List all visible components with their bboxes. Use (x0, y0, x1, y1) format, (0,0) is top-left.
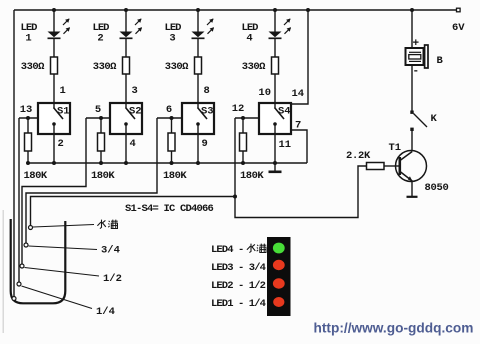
ground symbol (emitter) (407, 196, 418, 198)
node: junction dots on top rail (52, 8, 414, 12)
node: control junction S4 (241, 116, 245, 120)
leader: 1/4 (22, 286, 93, 309)
svg-text:13: 13 (20, 104, 33, 116)
svg-text:T1: T1 (389, 142, 402, 154)
probe: common electrode bottom (12, 297, 16, 301)
wire: probe wire stage1 (1/4 level) (18, 118, 20, 282)
wire: common electrode feed (left vertical from +6V into tank) (13, 10, 15, 297)
wire: R3 to S3 pin8 (197, 74, 199, 103)
svg-text:3/4: 3/4 (101, 245, 120, 257)
wire: R4 to S4 pin10 (274, 74, 276, 103)
wire: rail to LED1 (53, 10, 55, 32)
svg-text:1: 1 (60, 85, 66, 97)
svg-text:330Ω: 330Ω (242, 61, 266, 73)
wire: ground rail (28, 162, 307, 164)
wire: 2.2K to base (384, 165, 399, 167)
svg-text:5: 5 (95, 104, 101, 116)
svg-text:3: 3 (132, 85, 138, 97)
svg-text:2.2K: 2.2K (346, 150, 371, 162)
svg-text:B: B (437, 55, 444, 67)
leader: full level (33, 225, 94, 228)
wire: probe wire stage2 (1/2 level) (22, 118, 86, 264)
tank (container) (11, 219, 66, 303)
svg-text:LED3 - 3/4: LED3 - 3/4 (211, 262, 266, 274)
resistor 180K (stage3) (168, 118, 175, 165)
resistor R2 330Ω (123, 57, 130, 74)
probe: 3/4 level (24, 243, 28, 247)
wire: S3 pin6 control (157, 117, 182, 119)
svg-text:S1-S4= IC CD4066: S1-S4= IC CD4066 (125, 203, 214, 215)
svg-text:180K: 180K (91, 170, 115, 182)
resistor 180K (stage2) (98, 118, 105, 165)
analog switch S4 (259, 103, 291, 134)
wire: S4 pin7 to ground rail (291, 130, 307, 163)
node (196, 161, 200, 165)
label: 水滿 (tank) (97, 220, 117, 229)
LED D3 (192, 19, 214, 38)
wire: rail to LED3 (197, 10, 199, 32)
wire: S1 pin13 control (19, 117, 38, 119)
svg-text:11: 11 (279, 139, 292, 151)
wire: +6V top rail (14, 9, 457, 11)
node: control junction S3 (170, 116, 174, 120)
wire: S2 pin5 control (86, 117, 110, 119)
svg-text:4: 4 (246, 33, 252, 45)
wire: S1 pin2 to ground rail (53, 124, 55, 163)
probe: 1/4 level (17, 282, 21, 286)
analog switch S2 (110, 103, 142, 134)
svg-text:330Ω: 330Ω (165, 61, 189, 73)
node: control junction S1 (26, 116, 30, 120)
leader: 3/4 (29, 246, 98, 250)
LED D4 (269, 19, 291, 38)
wire: probe wire stage4 (full level) (31, 197, 236, 226)
wire: S2 pin4 to ground rail (125, 124, 127, 163)
svg-text:2: 2 (58, 138, 64, 150)
svg-text:LED4 -: LED4 - (211, 244, 243, 256)
transistor T1 (396, 151, 427, 182)
svg-text:2: 2 (97, 33, 103, 45)
svg-text:180K: 180K (24, 170, 48, 182)
svg-text:180K: 180K (240, 170, 264, 182)
wire: probe wire stage3 (3/4 level) (26, 118, 157, 243)
wire: S4 pin14 to +6V rail (291, 10, 308, 104)
buzzer B (406, 45, 429, 68)
legend LED red (1/4) (273, 297, 284, 307)
svg-text:LED2 - 1/2: LED2 - 1/2 (211, 280, 266, 292)
LED D1 (48, 19, 70, 38)
wire: switch K to T1 collector (411, 131, 413, 151)
resistor R4 330Ω (272, 57, 279, 74)
wire: R2 to S2 pin3 (125, 74, 127, 103)
svg-text:S3: S3 (201, 106, 214, 118)
wire: rail to LED2 (125, 10, 127, 32)
legend LED red (3/4) (273, 260, 285, 270)
svg-text:180K: 180K (163, 170, 187, 182)
wire: emitter to ground (411, 182, 413, 197)
LED D2 (120, 19, 142, 38)
svg-text:LED1 - 1/4: LED1 - 1/4 (211, 298, 266, 310)
svg-text:1: 1 (25, 33, 31, 45)
svg-text:330Ω: 330Ω (21, 61, 45, 73)
svg-text:10: 10 (258, 87, 271, 99)
wire: R1 to S1 pin1 (53, 74, 55, 103)
switch K (410, 111, 427, 132)
svg-text:330Ω: 330Ω (93, 61, 117, 73)
svg-text:8: 8 (204, 85, 210, 97)
svg-text:K: K (431, 113, 438, 125)
svg-text:-: - (413, 66, 420, 78)
wire: stage4 control down to base network (235, 118, 367, 218)
wire: LED3 to R3 (197, 38, 199, 57)
node: junction to full-level probe (233, 195, 237, 199)
svg-text:1/4: 1/4 (96, 306, 115, 318)
svg-text:http://www.go-gddq.com: http://www.go-gddq.com (314, 321, 474, 336)
svg-text:1/2: 1/2 (103, 273, 122, 285)
svg-text:6: 6 (166, 104, 172, 116)
wire: buzzer to switch K (411, 65, 413, 111)
svg-text:S2: S2 (129, 106, 142, 118)
node: control junction S2 (99, 116, 103, 120)
resistor 2.2K (367, 163, 385, 170)
wire: rail to buzzer (411, 10, 413, 48)
legend panel (267, 237, 291, 316)
analog switch S1 (38, 103, 70, 134)
probe: full level 水滿 (29, 226, 33, 230)
wire: LED1 to R1 (53, 38, 55, 57)
wire: S4 pin12 control (235, 117, 259, 119)
legend LED red (1/2) (273, 278, 285, 288)
wire: LED2 to R2 (125, 38, 127, 57)
wire: S3 pin9 to ground rail (197, 124, 199, 163)
terminal: 6V supply terminal (457, 8, 461, 12)
legend LED green (full) (273, 243, 285, 254)
svg-text:6V: 6V (452, 22, 465, 34)
node (273, 161, 277, 165)
wire: S4 pin11 to ground rail (274, 124, 276, 163)
leader: 1/2 (25, 268, 100, 277)
wire: LED4 to R4 (274, 38, 276, 57)
svg-text:S1: S1 (57, 106, 70, 118)
resistor R1 330Ω (51, 57, 58, 74)
svg-text:14: 14 (292, 88, 305, 100)
wire: rail to LED4 (274, 10, 276, 32)
analog switch S3 (182, 103, 214, 134)
resistor 180K (stage4) (240, 118, 247, 165)
ground symbol (269, 163, 282, 172)
svg-text:12: 12 (232, 103, 245, 115)
probe: 1/2 level (20, 264, 24, 268)
resistor 180K (stage1) (25, 118, 32, 165)
resistor R3 330Ω (195, 57, 202, 74)
svg-text:S4: S4 (278, 106, 291, 118)
svg-text:9: 9 (202, 138, 208, 150)
svg-text:4: 4 (130, 138, 136, 150)
svg-text:8050: 8050 (425, 182, 449, 194)
node (124, 161, 128, 165)
node: S1 output on ground rail (52, 161, 56, 165)
svg-text:3: 3 (169, 33, 175, 45)
page edge artifact (2, 210, 4, 333)
